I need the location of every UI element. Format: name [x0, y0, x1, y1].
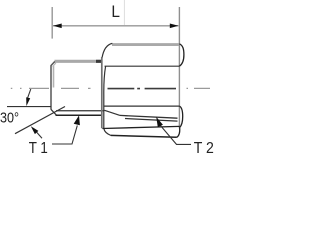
T1 arrowhead	[74, 115, 80, 125]
30 deg down arrow leader	[28, 89, 31, 98]
male stud face shadow	[53, 66, 55, 88]
nut hex flat line top	[105, 65, 180, 67]
dimension L line	[53, 25, 179, 27]
centerline dark segment inside nut	[108, 88, 177, 90]
nut top-left corner arc	[102, 43, 112, 58]
svg-text:T 2: T 2	[194, 139, 214, 157]
female thread line 1	[120, 115, 178, 118]
T2 arrowhead	[156, 117, 163, 127]
male stud outer crest line bottom	[56, 114, 102, 116]
centerline	[11, 87, 210, 89]
male stud top chamfer	[51, 62, 55, 66]
svg-text:30°: 30°	[0, 108, 19, 125]
nut T2 : top edge band	[112, 43, 179, 46]
30 deg cone diagonal line	[15, 107, 65, 134]
30 deg reference line	[7, 106, 51, 108]
nut bottom-right corner arc	[177, 128, 180, 138]
dimension L right arrowhead	[170, 24, 179, 29]
nut hex flat line bottom	[104, 105, 180, 107]
30 deg second arrowhead	[31, 126, 39, 134]
30 deg down arrowhead	[26, 97, 30, 106]
dimension L right extension line / nut right face	[178, 7, 180, 128]
svg-text:T 1: T 1	[29, 140, 48, 157]
male stud top edge dark end	[96, 60, 102, 63]
nut bottom-left chamfer	[104, 128, 111, 135]
male stud top chamfer shadow	[53, 63, 56, 67]
dimension L left extension line	[51, 7, 53, 39]
nut right bulge arc bottom band	[179, 106, 182, 128]
dimension L left arrowhead	[53, 24, 62, 29]
T2 leader line	[160, 125, 191, 144]
nut left face	[101, 57, 103, 128]
30 deg second arrow leader	[37, 132, 42, 138]
faint guide line above L	[123, 0, 125, 25]
male stud bottom chamfer	[51, 109, 57, 115]
male stud thread root line bottom	[56, 110, 104, 112]
nut inner hex boundary line bottom	[102, 126, 179, 128]
svg-text:L: L	[111, 2, 120, 21]
T1 leader line	[52, 126, 77, 145]
nut hex edge curve near left face	[104, 66, 106, 128]
female thread lead-in chamfer	[105, 110, 121, 115]
nut bottom edge	[111, 135, 177, 137]
female thread line 2	[125, 119, 178, 122]
male stud T1 : top edge band	[55, 60, 97, 63]
nut right bulge arc top band	[179, 44, 184, 66]
male stud left face	[50, 65, 52, 109]
